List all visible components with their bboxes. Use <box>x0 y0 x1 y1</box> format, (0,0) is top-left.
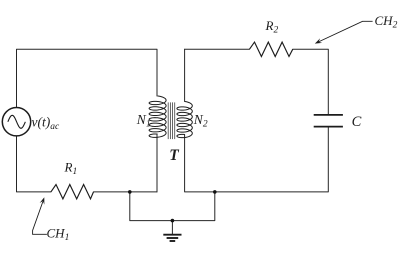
transformer primary winding N1 <box>149 96 166 137</box>
wire source bottom to rail <box>17 136 51 192</box>
wire top-right rail to R2 <box>185 48 250 50</box>
wire ground bus left drop <box>130 192 215 221</box>
svg-text:T: T <box>169 147 179 164</box>
wire capacitor bottom to rail <box>185 127 329 192</box>
wire R2 to capacitor top <box>293 49 329 114</box>
wire top-left rail <box>17 49 158 107</box>
svg-text:C: C <box>352 114 362 130</box>
svg-text:N2: N2 <box>193 112 208 130</box>
CH2 pointer line <box>319 21 373 42</box>
node junction dot left <box>128 190 132 194</box>
capacitor C plates <box>314 115 343 127</box>
resistor R1 <box>51 185 94 199</box>
voltage source sine symbol <box>8 115 26 128</box>
svg-text:v(t)ac: v(t)ac <box>32 114 60 132</box>
node junction dot ground <box>171 219 175 223</box>
ground symbol <box>163 235 181 241</box>
voltage source U1 circle <box>2 108 30 136</box>
CH1 pointer line <box>33 202 47 235</box>
node junction dot right <box>213 190 217 194</box>
svg-text:CH1: CH1 <box>47 225 70 243</box>
svg-text:R1: R1 <box>64 160 78 178</box>
svg-text:CH2: CH2 <box>375 13 398 31</box>
wire transformer N1 bottom <box>156 134 158 192</box>
wire R1 right to transformer <box>94 191 158 193</box>
svg-text:N1: N1 <box>136 112 151 130</box>
transformer secondary winding N2 <box>177 102 192 138</box>
resistor R2 <box>249 42 292 56</box>
transformer core <box>168 102 175 139</box>
svg-text:R2: R2 <box>265 18 279 36</box>
wire transformer N2 top <box>184 49 186 101</box>
wire ground stem <box>171 221 173 235</box>
CH2 arrowhead <box>315 38 322 43</box>
CH1 arrowhead <box>40 197 45 204</box>
